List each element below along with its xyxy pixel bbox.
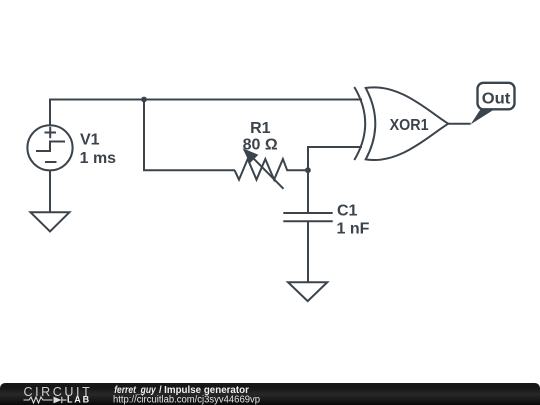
svg-text:1 nF: 1 nF — [337, 220, 370, 237]
svg-text:Out: Out — [482, 91, 511, 108]
svg-text:LAB: LAB — [67, 395, 91, 405]
svg-text:80 Ω: 80 Ω — [243, 136, 278, 153]
svg-text:XOR1: XOR1 — [390, 117, 429, 134]
svg-text:http://circuitlab.com/cj3syv44: http://circuitlab.com/cj3syv44669vp — [113, 395, 260, 405]
svg-text:C1: C1 — [337, 203, 358, 220]
svg-text:V1: V1 — [80, 132, 100, 149]
svg-text:1 ms: 1 ms — [80, 150, 117, 167]
svg-text:R1: R1 — [250, 120, 271, 137]
